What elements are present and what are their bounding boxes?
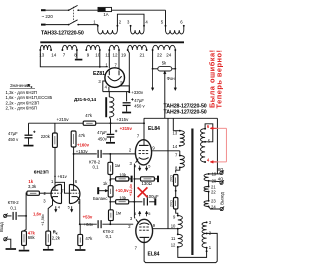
svg-text:68k: 68k: [28, 235, 36, 240]
svg-text:ТАН29-127/220-50: ТАН29-127/220-50: [164, 109, 207, 115]
svg-text:11: 11: [171, 236, 176, 241]
svg-text:Д31-5-0,14: Д31-5-0,14: [74, 97, 96, 102]
svg-text:450 v: 450 v: [8, 137, 19, 142]
svg-text:12: 12: [113, 53, 119, 58]
svg-text:10k: 10k: [119, 172, 127, 177]
svg-text:1А: 1А: [103, 12, 108, 17]
svg-text:6Н23П: 6Н23П: [34, 170, 49, 176]
svg-text:0,1: 0,1: [106, 234, 113, 239]
svg-text:22: 22: [211, 190, 216, 195]
svg-text:20Ω: 20Ω: [169, 200, 173, 207]
svg-text:1,6к - для 6Н1П,ЕСС85: 1,6к - для 6Н1П,ЕСС85: [6, 95, 53, 100]
svg-text:~ 220: ~ 220: [42, 14, 54, 19]
svg-text:К78-2: К78-2: [8, 200, 20, 205]
svg-text:24: 24: [166, 53, 172, 58]
svg-text:47µF: 47µF: [8, 131, 18, 136]
svg-text:47k: 47k: [78, 133, 86, 138]
svg-text:22: 22: [157, 53, 163, 58]
svg-text:+315v: +315v: [120, 126, 133, 131]
svg-text:23: 23: [211, 199, 216, 204]
svg-text:5: 5: [68, 205, 70, 210]
svg-text:47k: 47k: [85, 113, 93, 118]
svg-text:+153v: +153v: [76, 149, 89, 154]
svg-text:47µF: 47µF: [97, 130, 107, 135]
svg-text:+61v: +61v: [57, 174, 67, 179]
svg-text:+215v: +215v: [57, 117, 70, 122]
svg-text:Вход: Вход: [0, 222, 4, 232]
svg-text:10: 10: [171, 224, 176, 229]
svg-text:1,3к - для 6Н2П: 1,3к - для 6Н2П: [6, 90, 38, 95]
svg-text:+1,56v: +1,56v: [40, 214, 45, 226]
svg-text:+53v: +53v: [83, 214, 93, 219]
svg-text:5: 5: [148, 211, 150, 216]
svg-text:ТАН33-127/220-50: ТАН33-127/220-50: [41, 30, 84, 36]
svg-text:2,2k: 2,2k: [52, 235, 61, 240]
svg-text:10k: 10k: [119, 195, 127, 200]
svg-text:+160v: +160v: [77, 143, 90, 148]
svg-text:21: 21: [140, 53, 146, 58]
svg-text:14: 14: [173, 144, 178, 149]
svg-text:0,1: 0,1: [93, 165, 100, 170]
svg-text:100µF: 100µF: [146, 194, 159, 199]
svg-text:1м: 1м: [115, 163, 120, 168]
svg-text:+330v: +330v: [131, 90, 144, 95]
svg-text:Выход: Выход: [220, 192, 225, 205]
svg-text:8Ω: 8Ω: [218, 167, 224, 172]
svg-text:47k: 47k: [85, 236, 93, 241]
svg-text:220k: 220k: [41, 134, 51, 139]
svg-text:12: 12: [171, 242, 176, 247]
svg-text:+64v: +64v: [84, 222, 94, 227]
svg-text:EL84: EL84: [148, 126, 160, 132]
svg-text:5: 5: [148, 164, 150, 169]
svg-text:Фон: Фон: [167, 76, 176, 81]
svg-text:+12,4v: +12,4v: [128, 183, 133, 196]
svg-text:1м: 1м: [116, 210, 121, 215]
svg-text:EL84: EL84: [148, 252, 160, 258]
svg-text:3,3k: 3,3k: [28, 184, 37, 189]
svg-text:EZ81: EZ81: [93, 71, 105, 77]
svg-text:Теперь верно!: Теперь верно!: [215, 50, 224, 109]
svg-text:+315v: +315v: [116, 117, 129, 122]
svg-text:450 v: 450 v: [134, 103, 145, 108]
svg-text:20Ω: 20Ω: [169, 175, 173, 182]
svg-text:Баланс: Баланс: [93, 196, 108, 201]
svg-text:0,1: 0,1: [10, 206, 17, 211]
svg-text:14: 14: [51, 53, 57, 58]
svg-text:4Ω: 4Ω: [218, 177, 224, 182]
svg-text:450v: 450v: [98, 136, 108, 141]
svg-text:13: 13: [173, 130, 178, 135]
svg-text:19: 19: [121, 53, 127, 58]
svg-text:130Ω: 130Ω: [142, 181, 153, 186]
svg-text:2,7к - для 6Н6П: 2,7к - для 6Н6П: [6, 106, 38, 111]
